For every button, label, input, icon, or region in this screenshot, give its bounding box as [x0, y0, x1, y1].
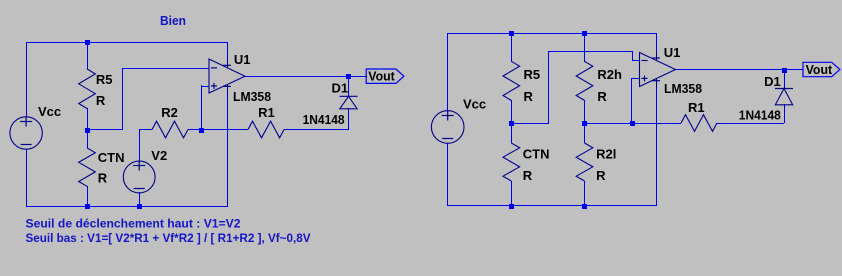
- resistor R1 (right): [681, 115, 717, 132]
- junction R2h top / rail: [582, 31, 587, 36]
- resistor R5 (right): [503, 61, 520, 100]
- wire R2 right lead: [188, 129, 201, 131]
- wire U1 output to Vout (right): [675, 69, 803, 71]
- resistor R1 (left): [248, 121, 284, 138]
- junction R5 top / rail (right): [509, 31, 514, 36]
- svg-text:R: R: [597, 89, 607, 104]
- svg-text:CTN: CTN: [523, 147, 550, 162]
- wire CTN bottom lead: [87, 186, 89, 207]
- wire node C vertical: [548, 51, 550, 123]
- wire top rail (right circuit): [447, 33, 656, 35]
- net flag Vout (left): [366, 69, 404, 83]
- op-amp U1 (left) LM358: [209, 59, 245, 93]
- svg-text:Vout: Vout: [368, 68, 395, 83]
- wire R2h top lead: [584, 33, 586, 62]
- junction non-inverting tap: [630, 121, 635, 126]
- wire R1 to D1 anode (right): [717, 123, 784, 125]
- junction V2 bottom / rail: [137, 204, 142, 209]
- wire non-inverting input stub (right): [631, 78, 640, 80]
- wire R5 bottom lead (right): [511, 100, 513, 123]
- junction node A (R5/CTN midpoint): [85, 128, 90, 133]
- voltage source Vcc (right): [431, 111, 464, 144]
- wire U1 V+ pin (right): [656, 33, 658, 52]
- junction U1 output / D1 / Vout (right): [782, 68, 787, 73]
- wire inverting input stub (right): [632, 60, 640, 62]
- wire D1 anode lead (right): [784, 104, 786, 123]
- svg-text:R1: R1: [688, 100, 705, 115]
- wire node A horizontal: [87, 129, 123, 131]
- svg-text:Vout: Vout: [806, 62, 833, 77]
- wire Vcc top lead (right): [447, 33, 449, 111]
- wire U1 V+ pin: [227, 42, 229, 59]
- wire top rail (left circuit): [26, 42, 227, 44]
- wire non-inverting input vertical (right): [631, 78, 633, 123]
- diode D1 (left) 1N4148: [340, 95, 358, 97]
- svg-text:Vcc: Vcc: [463, 97, 486, 112]
- thermistor CTN (left): [79, 148, 96, 186]
- svg-text:LM358: LM358: [664, 81, 702, 96]
- svg-text:D1: D1: [332, 81, 349, 96]
- voltage source V2: [123, 161, 155, 193]
- wire inverting input jog: [632, 51, 634, 61]
- svg-text:R2l: R2l: [596, 147, 616, 162]
- wire CTN bottom lead (right): [511, 181, 513, 206]
- svg-text:R5: R5: [524, 67, 541, 82]
- svg-text:R: R: [524, 89, 534, 104]
- diode D1 (right) 1N4148: [775, 88, 793, 90]
- svg-text:R: R: [98, 171, 108, 186]
- wire R5 top lead (right): [511, 33, 513, 62]
- junction node C (R5/CTN midpoint right): [509, 121, 514, 126]
- junction U1 output / D1 / Vout: [346, 74, 351, 79]
- wire D1 cathode lead: [348, 76, 350, 97]
- wire non-inverting input vertical: [201, 85, 203, 130]
- junction CTN bottom / rail (right): [509, 204, 514, 209]
- wire bottom rail (left circuit): [26, 206, 227, 208]
- svg-text:R1: R1: [258, 105, 275, 120]
- wire to U1 inverting input (right): [548, 51, 633, 53]
- svg-text:CTN: CTN: [98, 150, 125, 165]
- junction CTN bottom / rail: [85, 204, 90, 209]
- wire D1 anode lead: [348, 108, 350, 130]
- wire V2 bottom lead: [139, 192, 141, 207]
- svg-text:R: R: [596, 168, 606, 183]
- thermistor CTN (right): [503, 143, 520, 181]
- junction R5 top / rail: [85, 40, 90, 45]
- svg-text:1N4148: 1N4148: [739, 107, 781, 122]
- svg-text:V2: V2: [151, 148, 167, 163]
- wire CTN top lead: [87, 129, 89, 148]
- resistor R2h: [576, 61, 593, 100]
- wire node B to R1: [201, 129, 248, 131]
- svg-text:Vcc: Vcc: [38, 104, 61, 119]
- svg-text:Seuil bas : V1=[ V2*R1 + Vf*R2: Seuil bas : V1=[ V2*R1 + Vf*R2 ] / [ R1+…: [26, 231, 311, 245]
- wire Vcc top lead: [26, 42, 28, 117]
- wire node C horizontal: [511, 123, 549, 125]
- wire Vcc bottom lead: [26, 149, 28, 207]
- op-amp U1 (right) LM358: [640, 53, 676, 87]
- resistor R5 (left): [79, 69, 96, 109]
- svg-text:R: R: [523, 168, 533, 183]
- svg-text:U1: U1: [234, 52, 251, 67]
- svg-text:U1: U1: [664, 45, 681, 60]
- wire node A vertical: [122, 68, 124, 130]
- voltage source Vcc (left): [10, 117, 42, 149]
- wire to U1 inverting input: [122, 68, 209, 70]
- svg-text:Bien: Bien: [160, 13, 186, 28]
- wire Vcc bottom lead (right): [447, 143, 449, 206]
- svg-text:LM358: LM358: [233, 89, 271, 104]
- svg-text:D1: D1: [764, 74, 781, 89]
- resistor R2: [152, 121, 188, 138]
- wire U1 V- pin: [227, 93, 229, 207]
- wire V2 top lead: [139, 129, 141, 162]
- wire R5 top lead: [87, 42, 89, 69]
- wire R2 left lead: [139, 129, 152, 131]
- svg-text:R2: R2: [161, 105, 178, 120]
- junction R2l bottom / rail (right): [582, 204, 587, 209]
- wire U1 V- pin (right): [656, 88, 658, 206]
- wire D1 cathode lead (right): [784, 69, 786, 89]
- wire R2l top lead: [584, 123, 586, 143]
- wire U1 output to Vout: [245, 76, 367, 78]
- net flag Vout (right): [803, 62, 840, 76]
- junction node B (R2/R1/+input): [199, 128, 204, 133]
- svg-text:1N4148: 1N4148: [303, 112, 345, 127]
- wire U1 non-inverting input stub: [201, 86, 209, 88]
- wire R5 bottom lead: [87, 108, 89, 130]
- wire CTN top lead (right): [511, 123, 513, 143]
- svg-text:R2h: R2h: [597, 67, 622, 82]
- wire bottom rail (right circuit): [447, 205, 656, 207]
- wire R2l bottom lead: [584, 181, 586, 206]
- svg-text:Seuil de déclenchement haut :: Seuil de déclenchement haut : V1=V2: [26, 216, 241, 230]
- svg-text:R: R: [96, 93, 106, 108]
- wire R2h bottom lead: [584, 100, 586, 123]
- resistor R2l: [576, 143, 593, 181]
- wire R1 to D1 anode: [284, 129, 349, 131]
- svg-text:R5: R5: [96, 72, 113, 87]
- junction node D (R2h/R2l midpoint): [582, 121, 587, 126]
- wire node D to R1 (right): [584, 123, 681, 125]
